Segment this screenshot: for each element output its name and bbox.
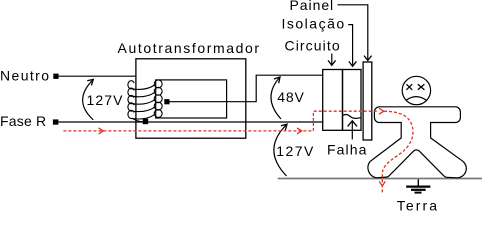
pointer Painel to panel bar xyxy=(338,5,372,61)
ground symbol Terra xyxy=(406,179,430,192)
svg-text:Neutro: Neutro xyxy=(0,68,50,84)
fault path arrow 1 xyxy=(99,128,104,134)
autotransformer enclosure box xyxy=(136,59,246,138)
person right eye X xyxy=(418,84,425,90)
svg-text:Circuito: Circuito xyxy=(285,38,341,54)
panel bar xyxy=(363,62,372,140)
voltage arrow 127V right xyxy=(274,124,287,176)
circuit box xyxy=(323,70,343,131)
node winding bottom tap xyxy=(143,119,149,125)
node winding mid tap xyxy=(164,99,169,104)
wire Neutro to autotransformer xyxy=(59,75,137,77)
fault path arrow 3 xyxy=(379,108,384,114)
person head xyxy=(402,76,430,104)
svg-text:Autotransformador: Autotransformador xyxy=(118,40,261,56)
fault squiggle xyxy=(343,114,361,118)
wire Fase R to panel xyxy=(58,121,323,123)
fault path arrow 2 xyxy=(297,128,302,134)
autotransformer inner box xyxy=(156,80,227,118)
node Neutro terminal xyxy=(53,74,58,79)
person body xyxy=(368,107,466,178)
svg-text:48V: 48V xyxy=(277,89,305,105)
svg-text:127V: 127V xyxy=(276,143,315,159)
svg-text:Painel: Painel xyxy=(290,0,335,13)
winding coil xyxy=(128,80,162,122)
fault current path red dashed xyxy=(63,111,413,194)
voltage arrow 127V left xyxy=(83,79,94,119)
fault path arrow 4 xyxy=(379,181,385,186)
ground line xyxy=(278,178,482,180)
pointer Circuito to circuit box xyxy=(328,54,336,66)
pointer Falha arrow to squiggle xyxy=(348,121,357,140)
node Fase R terminal xyxy=(53,119,59,124)
svg-text:Falha: Falha xyxy=(327,142,368,158)
pointer Isolacao to isolation box xyxy=(348,25,356,67)
voltage arrow 48V xyxy=(271,77,281,119)
svg-text:Isolação: Isolação xyxy=(282,16,346,32)
svg-text:Terra: Terra xyxy=(397,198,439,213)
isolation box xyxy=(343,70,362,131)
person frown mouth xyxy=(406,97,426,101)
person left eye X xyxy=(406,84,412,90)
svg-text:127V: 127V xyxy=(87,92,124,108)
wire tap to panel xyxy=(170,75,324,102)
svg-text:Fase R: Fase R xyxy=(0,113,46,129)
